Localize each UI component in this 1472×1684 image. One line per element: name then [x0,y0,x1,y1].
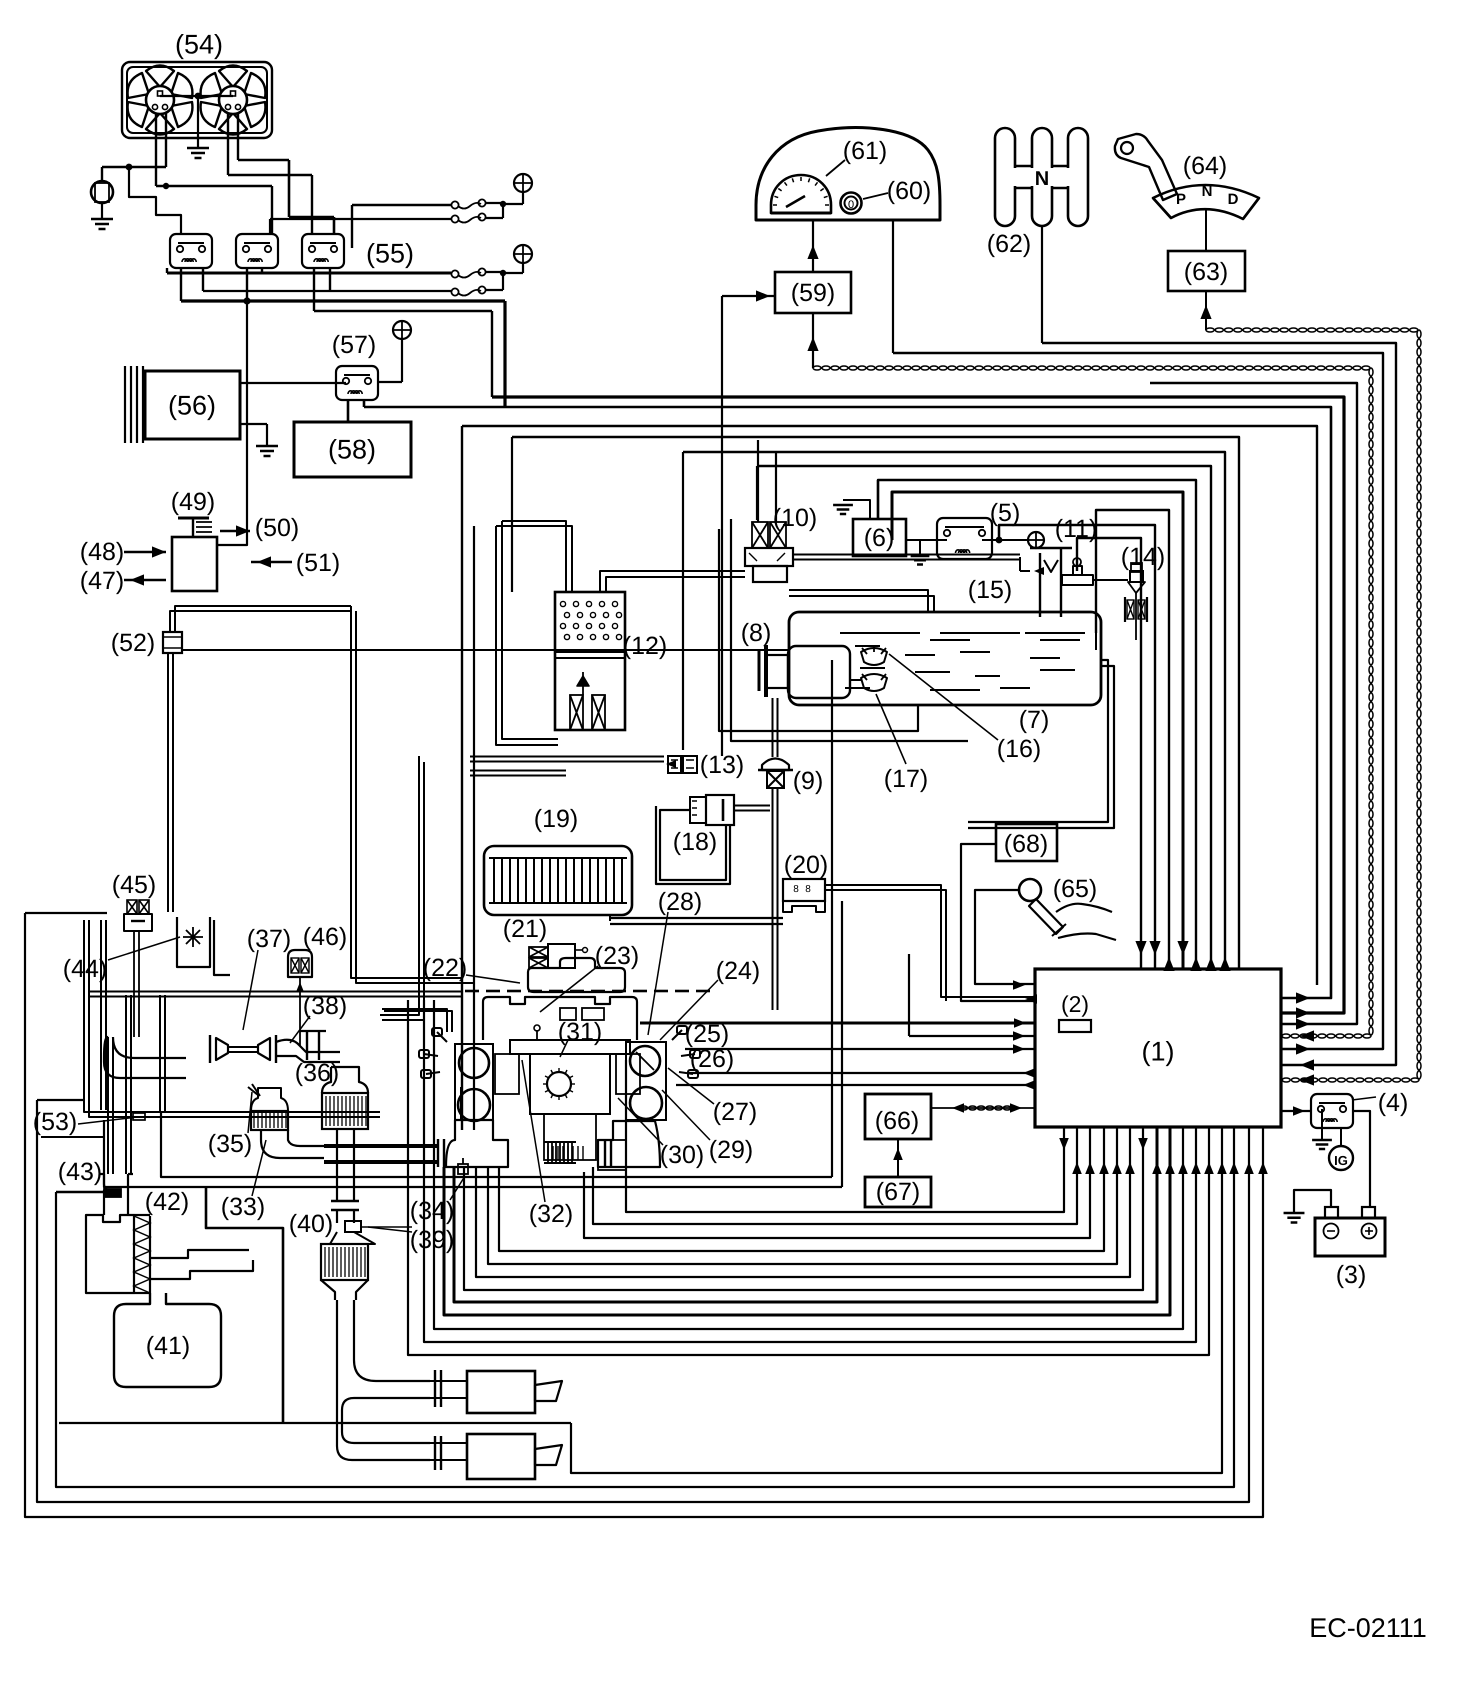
dashed line (22) [465,990,710,993]
bus y510 fuel sender [1096,510,1169,969]
svg-text:(26): (26) [690,1045,734,1073]
ground relay4 [1321,1109,1323,1140]
svg-text:(35): (35) [208,1130,252,1158]
speedo needle [786,196,805,207]
pipe canister top-right [600,571,745,592]
thick pin 1023 wire [640,1022,1035,1025]
svg-text:(12): (12) [623,632,667,660]
bus y466 [757,466,1211,969]
box (63) [1168,251,1245,291]
long vertical 832 [831,660,833,1177]
flex pipe [548,1142,572,1163]
wire fan to relay3 [228,174,312,176]
svg-text:(68): (68) [1004,830,1048,858]
bus y426 [462,426,1317,985]
wire left fan pins [155,113,157,186]
filler pipe (15) [1040,548,1061,617]
svg-text:(67): (67) [876,1178,920,1206]
43 fitting [104,1189,121,1197]
svg-text:(48): (48) [80,538,124,566]
purge solenoid (10) [752,522,768,548]
svg-text:(25): (25) [685,1020,729,1048]
svg-text:(58): (58) [328,434,376,464]
wire 67-66 [897,1139,899,1177]
wire pump strainer [850,679,861,681]
chain bus 59 to ECU [813,366,821,370]
muffler flange 2 [435,1436,441,1470]
wire 59 down [812,313,814,368]
fuel tank (7) [789,612,1101,705]
wire switch row2 [167,272,451,275]
muffler 1 [467,1371,535,1413]
svg-text:(22): (22) [423,954,467,982]
svg-text:(54): (54) [175,29,223,59]
pedal (65) [1019,879,1041,901]
radiator fan assembly (54) [122,62,272,138]
svg-text:(19): (19) [534,805,578,833]
left wrap top corner [25,912,107,914]
throttle body (36) [276,1040,340,1052]
center block [510,1040,630,1054]
shift gate (62) [995,128,1015,226]
wire fan to relay2 [156,185,272,187]
svg-text:(39): (39) [410,1226,454,1254]
solenoid (21) [529,947,548,957]
svg-text:EC-02111: EC-02111 [1309,1613,1427,1643]
wire 11 up [1076,538,1078,558]
wire relay4 to battery [1352,1111,1370,1206]
svg-text:(2): (2) [1061,991,1089,1017]
intercooler (19) [484,846,632,915]
pipe 19 to 20 [610,917,783,919]
wire fan link [160,95,233,97]
svg-text:(5): (5) [990,499,1021,527]
strainer 17 [861,674,887,691]
svg-text:(29): (29) [709,1136,753,1164]
svg-text:(28): (28) [658,888,702,916]
svg-text:(47): (47) [80,567,124,595]
injector nozzles left [432,1028,447,1042]
svg-text:(17): (17) [884,765,928,793]
svg-text:(63): (63) [1184,258,1228,286]
engine assembly [528,958,625,992]
left duct container [84,920,380,1112]
53 sensor [133,1113,145,1120]
svg-text:(45): (45) [112,871,156,899]
svg-text:(16): (16) [997,735,1041,763]
long vertical 842 from 20 [841,901,843,1187]
svg-text:(8): (8) [741,619,772,647]
canister (46) [288,950,312,977]
wire 6-5 [906,539,947,541]
injector (35) [248,1084,260,1096]
wire 59-61 [812,220,814,272]
duct pipes down [107,1037,109,1174]
wire 63 down [1205,291,1207,330]
ECU top pin arrows [1135,941,1146,955]
wire 6 top [877,480,879,519]
svg-text:IG: IG [1334,1153,1348,1168]
pressure sources valve (49) [178,517,209,520]
pipe canister bottom loop [502,521,558,739]
svg-text:(15): (15) [968,576,1012,604]
wire relay pins down [166,268,168,273]
muffler flange 1 [435,1370,441,1407]
left link line [41,1136,104,1138]
vertical 512 to canister [511,437,513,592]
bus y525 [999,525,1155,969]
intake opening (43) [104,1174,128,1215]
wire 68 [961,844,1035,1001]
svg-text:8: 8 [805,884,811,895]
svg-text:N: N [1202,183,1213,200]
wires 10 top [757,440,759,522]
bus 1177 [161,1112,832,1177]
air jet (44) [183,927,203,947]
wire into 59 [722,295,775,297]
box (68) [996,824,1057,861]
fuse switch row2a [451,270,458,277]
svg-text:(55): (55) [366,238,414,268]
relay (57) [336,366,378,400]
fuse switch row1a [451,201,458,208]
blower unit (56) [145,371,240,439]
PND dial (64) [1153,185,1259,219]
tank right pipe loop [1095,633,1097,650]
long vertical 474 [473,526,475,1130]
left Y pipe flange [438,1139,444,1167]
pump down pipe [772,698,774,757]
wire 20 right to ECU [825,885,1035,997]
ground 56 [240,423,267,425]
tank surround box [719,529,918,731]
pipe pair below 13 [470,770,566,772]
wire switch row1 [352,204,451,206]
main relay (4) [1311,1094,1353,1128]
muffler drum 2 [330,1232,375,1244]
svg-text:(52): (52) [111,629,155,657]
pipe 52 down [167,653,169,912]
ECU to relay 4 [1281,1110,1311,1112]
crank gear [547,1072,571,1096]
battery (3) [1315,1218,1385,1256]
sensor (20) [783,879,825,901]
connector (18) [690,797,706,823]
connector (13) [668,756,681,773]
canister (12) [555,592,625,730]
bulb indicator 1 [514,174,532,192]
tank surround box outer [731,519,968,741]
svg-text:(23): (23) [595,942,639,970]
intake down to 40 [337,1129,354,1201]
svg-text:(66): (66) [875,1107,919,1135]
resonator to air cleaner duct [150,1250,253,1279]
pipe 52 up loop [170,611,351,632]
muffler 2 [467,1434,535,1479]
bus y480 from tank area [878,480,1196,969]
svg-text:(13): (13) [700,751,744,779]
svg-text:(4): (4) [1378,1089,1409,1117]
air cleaner big [322,1093,368,1129]
svg-text:(7): (7) [1019,706,1050,734]
svg-text:(30): (30) [660,1141,704,1169]
left exhaust elbow [446,1120,508,1167]
tank liquid dashes [840,632,920,634]
ECU left pins out [687,1072,1035,1074]
wire 5 to bus [998,525,1000,540]
valve (9) [762,759,789,771]
relay (5) [937,518,992,559]
ground above 6 [843,500,870,519]
svg-text:(57): (57) [332,331,376,359]
ECU bottom pin wires and risers [626,1060,1064,1212]
pipe to 13 [470,756,664,758]
svg-text:(61): (61) [843,137,887,165]
box (6) fuel pump controller [853,519,906,556]
bus y538 from 11 [1077,538,1141,969]
svg-text:(9): (9) [793,767,824,795]
exhaust sensors [458,1164,468,1174]
vertical 757 to 10 [756,466,758,520]
fuse switch row1b [451,215,458,222]
odometer (60) [841,193,862,214]
svg-text:(56): (56) [168,390,216,420]
IG circle [1329,1146,1353,1170]
svg-text:(65): (65) [1053,875,1097,903]
svg-text:0: 0 [848,199,854,211]
wire 65 [975,890,1035,984]
svg-text:(3): (3) [1336,1261,1367,1289]
box (59) [775,272,851,313]
air duct 44 [177,917,210,967]
combination meter housing [756,128,940,220]
left manifold circle link [460,1087,462,1120]
svg-text:N: N [1035,168,1049,190]
svg-text:(50): (50) [255,514,299,542]
connector (45) [127,900,137,914]
svg-text:(34): (34) [410,1197,454,1225]
wire 60 down [892,220,894,353]
bus y397 to ECU right [492,397,1344,1013]
valve (14) [1130,571,1143,582]
fuel pump (8) [764,645,768,697]
bus 62 to ECU [1042,343,1396,1065]
ECU left pin 1049 [685,1048,1035,1050]
box (58) [294,422,411,477]
wire 66-ECU chain [931,1107,1035,1109]
duct elbow left [104,1037,186,1078]
long vertical 462 [461,426,463,1130]
wire 46 down [299,977,301,1046]
pipe 18 loop [660,810,726,880]
injector nozzles right [672,1026,687,1040]
junction 5 bulb [982,539,1028,541]
wire 62 down [1041,226,1043,343]
canister purge valves [570,695,583,730]
svg-text:(24): (24) [716,957,760,985]
resonator (42) [86,1215,134,1293]
air box loop [59,1422,571,1424]
box (66) [865,1094,931,1139]
svg-text:(46): (46) [303,923,347,951]
svg-text:(51): (51) [296,549,340,577]
pipe 18 right [734,805,770,807]
14 body [1125,597,1147,622]
wire 49-bus [217,301,247,545]
wire 57 to bus409 [363,399,366,407]
ground 5 [919,540,921,556]
bulb 5 [1028,532,1044,548]
left exhaust pipe to muffler [324,1144,438,1146]
bus relay feed B [314,310,492,312]
wire 45 down [133,931,135,1037]
wire fan right to bus [238,159,289,162]
wire motor to fan [101,167,103,181]
box (67) [865,1177,931,1207]
ECU (1) [1035,969,1281,1127]
sensor (40) [345,1221,361,1232]
svg-text:(64): (64) [1183,152,1227,180]
svg-text:D: D [1228,191,1239,208]
svg-text:(33): (33) [221,1193,265,1221]
right exhaust elbow [598,1121,660,1167]
pipe 10 to 15 [793,554,1020,556]
pipe 9 down [772,788,774,1010]
svg-text:(32): (32) [529,1200,573,1228]
bus y383 [1150,383,1357,1024]
speedometer (61) [771,175,831,213]
connector (52) [163,632,182,653]
right cylinder [630,1046,660,1076]
bus relay feed A [181,299,505,302]
valve body 47-51 [172,537,217,591]
duct down wire [206,1187,283,1423]
bus y437 [512,437,1239,969]
bus y492 [892,492,1183,969]
engine head outline [483,997,637,1040]
svg-text:(6): (6) [864,524,895,552]
svg-text:(36): (36) [295,1059,339,1087]
battery ground [1294,1190,1331,1213]
bus y407 to ECU right [364,407,1331,998]
intake runner pipes [382,1009,447,1032]
bus y452 [683,452,1225,969]
svg-text:(42): (42) [145,1188,189,1216]
pipe 10 to tank [789,590,928,612]
pipe canister top-left up [502,521,566,592]
wire right fan pins [227,113,229,175]
33 elbow [261,1130,324,1158]
relay A/C 2 [236,234,278,268]
svg-text:(60): (60) [887,177,931,205]
vertical 683 to 13 [682,452,684,750]
pipe 52 right [182,649,789,651]
backup IC (2) [1059,1020,1091,1032]
venturi (37) [216,1038,228,1060]
svg-text:(43): (43) [58,1158,102,1186]
41 tank [114,1293,221,1387]
svg-text:(40): (40) [289,1210,333,1238]
svg-text:(10): (10) [773,504,817,532]
svg-text:(20): (20) [784,851,828,879]
wire 1036 pin [908,954,910,1036]
valve (11) [1062,575,1093,585]
svg-text:(41): (41) [146,1332,190,1360]
bus pair left [89,991,462,993]
selector lever (64) [1121,142,1133,154]
svg-text:(1): (1) [1142,1036,1175,1066]
svg-text:(53): (53) [33,1108,77,1136]
wire motor junction down [129,167,181,234]
bulb indicator 2 [514,245,532,263]
left cylinder [459,1048,489,1078]
pipe canister to throttle [380,756,419,1015]
chain bus 63 to ECU [1206,328,1214,332]
catalyst pipes to mufflers [354,1300,430,1398]
svg-text:(18): (18) [673,828,717,856]
wire 57-58 [347,399,350,422]
relay A/C 3 [302,234,344,268]
bus 60 to ECU [893,353,1383,1049]
fuse switch row2b [451,288,458,295]
strainer 16 [861,648,887,665]
svg-text:(14): (14) [1121,543,1165,571]
svg-text:(49): (49) [171,488,215,516]
wire 56-57 [240,382,346,384]
svg-text:(44): (44) [63,955,107,983]
wire 64-63 [1205,208,1207,251]
svg-text:(62): (62) [987,230,1031,258]
air cleaner (33) small [251,1111,288,1130]
label 4 [1352,1097,1376,1100]
fan motor M [91,181,113,203]
relay A/C 1 [170,234,212,268]
svg-text:(27): (27) [713,1098,757,1126]
ground fan [197,96,199,148]
svg-text:(37): (37) [247,925,291,953]
svg-text:P: P [1176,191,1186,208]
wire 11-14 [1093,579,1128,581]
svg-text:8: 8 [793,884,799,895]
bulb 57 [393,321,411,339]
svg-text:(59): (59) [791,279,835,307]
svg-text:(21): (21) [503,915,547,943]
svg-text:(31): (31) [558,1018,602,1046]
